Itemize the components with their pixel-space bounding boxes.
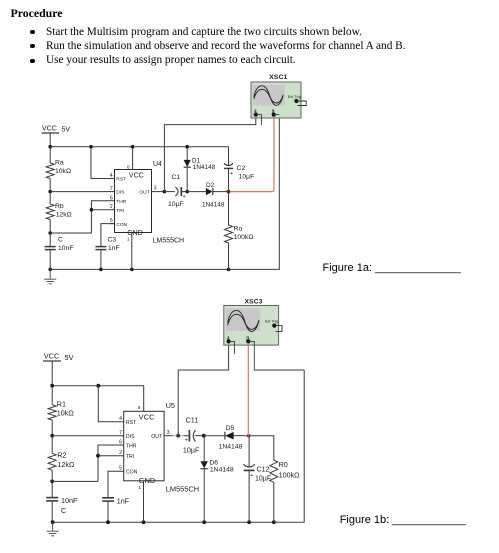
svg-text:3: 3 [167, 430, 170, 436]
svg-text:6: 6 [110, 195, 113, 201]
svg-text:C3: C3 [108, 237, 117, 244]
pin 2 TRI (bottom) [119, 450, 134, 460]
node Ro bottom junction [227, 268, 231, 272]
capacitor C 10nF [45, 233, 74, 269]
pin 7 DIS [110, 186, 125, 196]
svg-text:1N4148: 1N4148 [202, 202, 225, 209]
svg-text:Ext Trig: Ext Trig [265, 318, 278, 323]
wire RST link (bottom) [98, 386, 123, 422]
svg-text:GND: GND [139, 476, 156, 485]
pin 1 GND (bottom) [138, 481, 143, 522]
svg-text:D2: D2 [206, 182, 215, 189]
svg-text:Ra: Ra [55, 160, 64, 167]
svg-text:C1: C1 [172, 174, 181, 181]
resistor R2 12k [48, 436, 75, 482]
bullet 3 [30, 59, 34, 63]
resistor R0 100k [270, 460, 300, 522]
svg-text:5: 5 [110, 218, 113, 224]
node C12 bottom junction [247, 520, 251, 524]
node RST drop junction [89, 145, 93, 149]
ext trig terminal (bottom scope) [272, 324, 276, 328]
svg-text:100kΩ: 100kΩ [234, 234, 254, 241]
node rail-left junction (bottom) [50, 384, 54, 388]
svg-text:5V: 5V [65, 353, 74, 362]
wire THR/TRI link [50, 201, 114, 233]
wire OUT to scope A [164, 115, 255, 192]
svg-text:1: 1 [127, 237, 130, 242]
node OUT junction (bottom) [176, 434, 180, 438]
svg-text:D5: D5 [226, 425, 235, 432]
svg-text:+: + [185, 437, 189, 443]
node 1nF bottom junction [106, 520, 110, 524]
op-amp U5 LM555CH body [124, 401, 199, 493]
svg-text:TRI: TRI [116, 208, 124, 214]
svg-text:CON: CON [126, 470, 138, 476]
svg-text:7: 7 [119, 430, 122, 436]
node C11-D5-D6 junction [202, 434, 206, 438]
node Ra-Rb-DIS junction [48, 190, 52, 194]
svg-text:R1: R1 [57, 400, 66, 409]
pin 3 OUT (bottom) [151, 430, 172, 440]
resistor Ro 100k [225, 192, 254, 270]
svg-text:TRI: TRI [126, 454, 134, 460]
node C3 bottom junction [99, 268, 103, 272]
svg-text:10µF: 10µF [183, 446, 200, 455]
wire D5 to R0 corner [249, 436, 274, 460]
pin 5 CON [110, 218, 128, 228]
svg-text:1N4148: 1N4148 [210, 466, 234, 473]
svg-text:LM555CH: LM555CH [153, 238, 185, 245]
caption Figure 1a [323, 262, 461, 274]
node D2-C2-Ro junction [227, 190, 231, 194]
wire DIS (bottom) [52, 435, 124, 437]
svg-text:3: 3 [154, 186, 157, 192]
pin 6 THR (bottom) [119, 439, 137, 449]
node TRI junction [90, 208, 94, 212]
capacitor C1 10uF [164, 174, 187, 208]
svg-text:OUT: OUT [139, 190, 149, 196]
svg-text:C: C [61, 506, 66, 515]
power VCC 5V (top) [42, 126, 71, 147]
wire CON link (bottom) [108, 471, 124, 497]
capacitor C2 10uF [224, 147, 254, 192]
svg-text:VCC: VCC [44, 352, 60, 361]
wire top rail [50, 146, 228, 148]
svg-text:C2: C2 [237, 165, 246, 172]
capacitor C 10nF (bottom) [46, 481, 78, 522]
svg-text:10nF: 10nF [58, 245, 74, 252]
resistor Ra 10k [46, 147, 71, 192]
node OUT junction [163, 190, 167, 194]
svg-text:C11: C11 [186, 416, 199, 425]
node rail-left junction [48, 145, 52, 149]
capacitor C11 10uF [183, 416, 204, 455]
wire DIS [50, 191, 114, 193]
wire bottom rail (top circuit) [50, 115, 279, 270]
wire TRI (bottom) [98, 455, 124, 457]
wire OUT to scope A (bottom) [178, 341, 228, 435]
svg-text:Ext Trig: Ext Trig [288, 94, 301, 99]
svg-text:4: 4 [119, 416, 122, 422]
svg-text:10µF: 10µF [239, 173, 255, 180]
svg-text:U5: U5 [166, 401, 175, 410]
svg-text:8: 8 [127, 165, 130, 170]
bullet 1 [30, 30, 34, 34]
svg-text:1N4148: 1N4148 [193, 164, 216, 171]
wire red probe B (bottom circuit) [247, 341, 249, 435]
svg-text:1nF: 1nF [117, 496, 130, 505]
svg-text:THR: THR [126, 443, 137, 449]
svg-text:RST: RST [126, 420, 137, 426]
svg-text:+: + [230, 171, 233, 177]
svg-text:DIS: DIS [126, 434, 135, 440]
pin 6 THR [110, 195, 127, 205]
wire CON link [101, 224, 115, 246]
bullet 2 [30, 44, 34, 48]
node R2-C junction [50, 480, 54, 484]
wire orange OUT segment [173, 435, 184, 437]
resistor Rb 12k [46, 192, 72, 233]
svg-text:4: 4 [110, 173, 113, 179]
wire bottom rail (bottom circuit) [52, 370, 304, 522]
caption Figure 1b [340, 514, 466, 526]
svg-text:10µF: 10µF [168, 201, 184, 208]
node R0 bottom junction [272, 520, 276, 524]
node TRI junction (bottom) [96, 454, 100, 458]
pin 1 GND [127, 233, 132, 270]
svg-text:6: 6 [119, 439, 122, 445]
svg-text:12kΩ: 12kΩ [57, 460, 75, 469]
svg-text:CON: CON [116, 222, 127, 228]
heading Procedure [11, 6, 63, 21]
svg-text:2: 2 [119, 450, 122, 456]
svg-text:Rb: Rb [55, 203, 64, 210]
capacitor C3 1nF [95, 237, 119, 270]
ext trig terminal [294, 99, 298, 103]
svg-text:R2: R2 [57, 451, 66, 460]
pin 5 CON (bottom) [119, 466, 138, 476]
svg-text:8: 8 [138, 405, 141, 411]
node VCC pin drop junction [131, 145, 135, 149]
svg-text:DIS: DIS [116, 190, 125, 196]
svg-text:10nF: 10nF [61, 496, 78, 505]
svg-text:LM555CH: LM555CH [166, 484, 199, 493]
pin 4 RST (bottom) [119, 416, 137, 426]
wire THR/TRI link (bottom) [52, 445, 124, 481]
capacitor C12 10uF [243, 436, 271, 523]
node GND pin junction [130, 268, 134, 272]
node RST drop junction (bottom) [96, 384, 100, 388]
node Rb-C junction [48, 231, 52, 235]
svg-text:1nF: 1nF [108, 245, 120, 252]
svg-text:+: + [250, 473, 254, 479]
svg-text:5: 5 [119, 466, 122, 472]
wire RST link [91, 147, 115, 179]
diode D6 1N4148 [201, 436, 234, 523]
svg-text:XSC1: XSC1 [269, 74, 287, 81]
node D6 bottom junction [202, 520, 206, 524]
svg-text:THR: THR [116, 199, 127, 205]
diode D1 1N4148 [184, 147, 216, 192]
svg-text:1N4148: 1N4148 [219, 443, 243, 450]
ground (top circuit) [44, 269, 56, 283]
node red probe junction (bottom) [247, 434, 251, 438]
wire TRI [91, 209, 114, 211]
svg-text:1: 1 [138, 485, 141, 491]
svg-text:5V: 5V [62, 127, 71, 134]
svg-text:10kΩ: 10kΩ [57, 409, 75, 418]
pin 2 TRI [110, 204, 124, 214]
svg-text:+: + [183, 194, 186, 200]
op-amp U4 LM555CH body [115, 161, 185, 245]
pin 3 OUT [139, 186, 164, 196]
svg-text:7: 7 [110, 186, 113, 192]
oscilloscope XSC3 [224, 298, 304, 370]
wire scope B- to ground rail (bottom) [248, 341, 304, 370]
svg-text:10kΩ: 10kΩ [55, 168, 71, 175]
svg-text:XSC3: XSC3 [244, 298, 262, 305]
svg-text:RST: RST [116, 177, 126, 183]
svg-text:12kΩ: 12kΩ [56, 212, 72, 219]
pin 8 VCC [127, 147, 133, 170]
resistor R1 10k [48, 386, 74, 436]
svg-text:10µF: 10µF [255, 475, 271, 482]
svg-text:Ro: Ro [234, 225, 243, 232]
svg-text:100kΩ: 100kΩ [279, 471, 301, 480]
svg-text:R0: R0 [279, 460, 288, 469]
svg-text:U4: U4 [153, 161, 162, 168]
svg-text:VCC: VCC [139, 413, 155, 422]
svg-text:2: 2 [110, 204, 113, 210]
node D1 drop junction [185, 145, 189, 149]
svg-text:VCC: VCC [129, 172, 144, 179]
diode D2 1N4148 [187, 182, 228, 209]
node R1-R2-DIS junction [50, 434, 54, 438]
wire top rail (bottom circuit) [52, 386, 144, 412]
wire red probe B (top circuit) [230, 115, 274, 192]
oscilloscope XSC1 [251, 74, 306, 125]
ground (bottom circuit) [47, 522, 59, 536]
node C1-D1-D2 junction [185, 190, 189, 194]
node ground junction (bottom) [51, 520, 55, 524]
diode D5 1N4148 [204, 425, 249, 450]
svg-text:D6: D6 [209, 459, 218, 466]
pin 7 DIS (bottom) [119, 430, 135, 440]
power VCC 5V (bottom) [43, 352, 74, 386]
capacitor C3 1nF (bottom) [102, 496, 130, 522]
svg-text:C: C [58, 237, 63, 244]
pin 4 RST [110, 173, 127, 183]
svg-text:OUT: OUT [151, 434, 163, 440]
svg-text:VCC: VCC [42, 126, 57, 133]
svg-text:C12: C12 [257, 467, 270, 474]
node GND pin junction (bottom) [142, 520, 146, 524]
node ground junction [48, 268, 52, 272]
